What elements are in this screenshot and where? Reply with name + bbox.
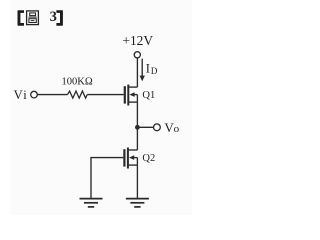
ground (right, at Q2 source) <box>126 199 149 207</box>
Q1 body-source link <box>136 95 138 103</box>
wire to Vo terminal <box>137 126 153 128</box>
Q1 drain lead <box>128 86 137 88</box>
svg-text:I: I <box>146 62 150 76</box>
scan background tint <box>11 0 192 215</box>
title 【圖 3】 <box>18 9 63 26</box>
terminal circle Vi <box>31 91 38 98</box>
Q1 gate bar <box>124 86 126 103</box>
Q1 channel bar <box>127 85 129 106</box>
resistor 100KΩ <box>68 91 88 98</box>
bracket 】 <box>56 10 63 26</box>
current arrow ID <box>140 59 145 82</box>
svg-text:V: V <box>14 88 23 102</box>
Q2 channel bar <box>127 148 129 169</box>
ground (left, at Q2 gate) <box>80 199 103 207</box>
transistor Q2 (NMOS) <box>124 148 137 169</box>
wire +12V to Q1 drain <box>136 58 138 87</box>
wire Vi to resistor <box>37 94 67 96</box>
svg-text:3: 3 <box>50 9 57 25</box>
wire Q2 source to ground <box>136 165 138 198</box>
node Vo junction dot <box>135 125 140 130</box>
Q2 drain lead <box>128 149 137 151</box>
svg-text:+12V: +12V <box>122 33 153 48</box>
bracket 【 <box>18 10 25 26</box>
glyph 圖 <box>27 11 39 25</box>
Q1 body arrow <box>133 94 137 96</box>
svg-text:D: D <box>151 66 158 76</box>
Q2 body-source link <box>136 158 138 166</box>
svg-text:i: i <box>23 88 27 102</box>
wire resistor to Q1 gate <box>87 94 124 96</box>
wire Q2 gate to ground <box>91 158 123 199</box>
svg-text:Q2: Q2 <box>142 153 155 164</box>
svg-text:Q1: Q1 <box>142 90 155 101</box>
Q2 gate bar <box>123 149 125 166</box>
svg-text:100KΩ: 100KΩ <box>62 76 93 87</box>
terminal circle Vo <box>154 124 161 131</box>
wire Q1 source to Q2 drain <box>136 102 138 150</box>
Q2 body arrow <box>133 157 138 159</box>
Q1 source lead <box>128 101 137 103</box>
svg-text:o: o <box>174 123 180 135</box>
Q2 source lead <box>128 164 137 166</box>
transistor Q1 (NMOS) <box>125 85 138 106</box>
terminal circle +12V <box>134 52 140 58</box>
